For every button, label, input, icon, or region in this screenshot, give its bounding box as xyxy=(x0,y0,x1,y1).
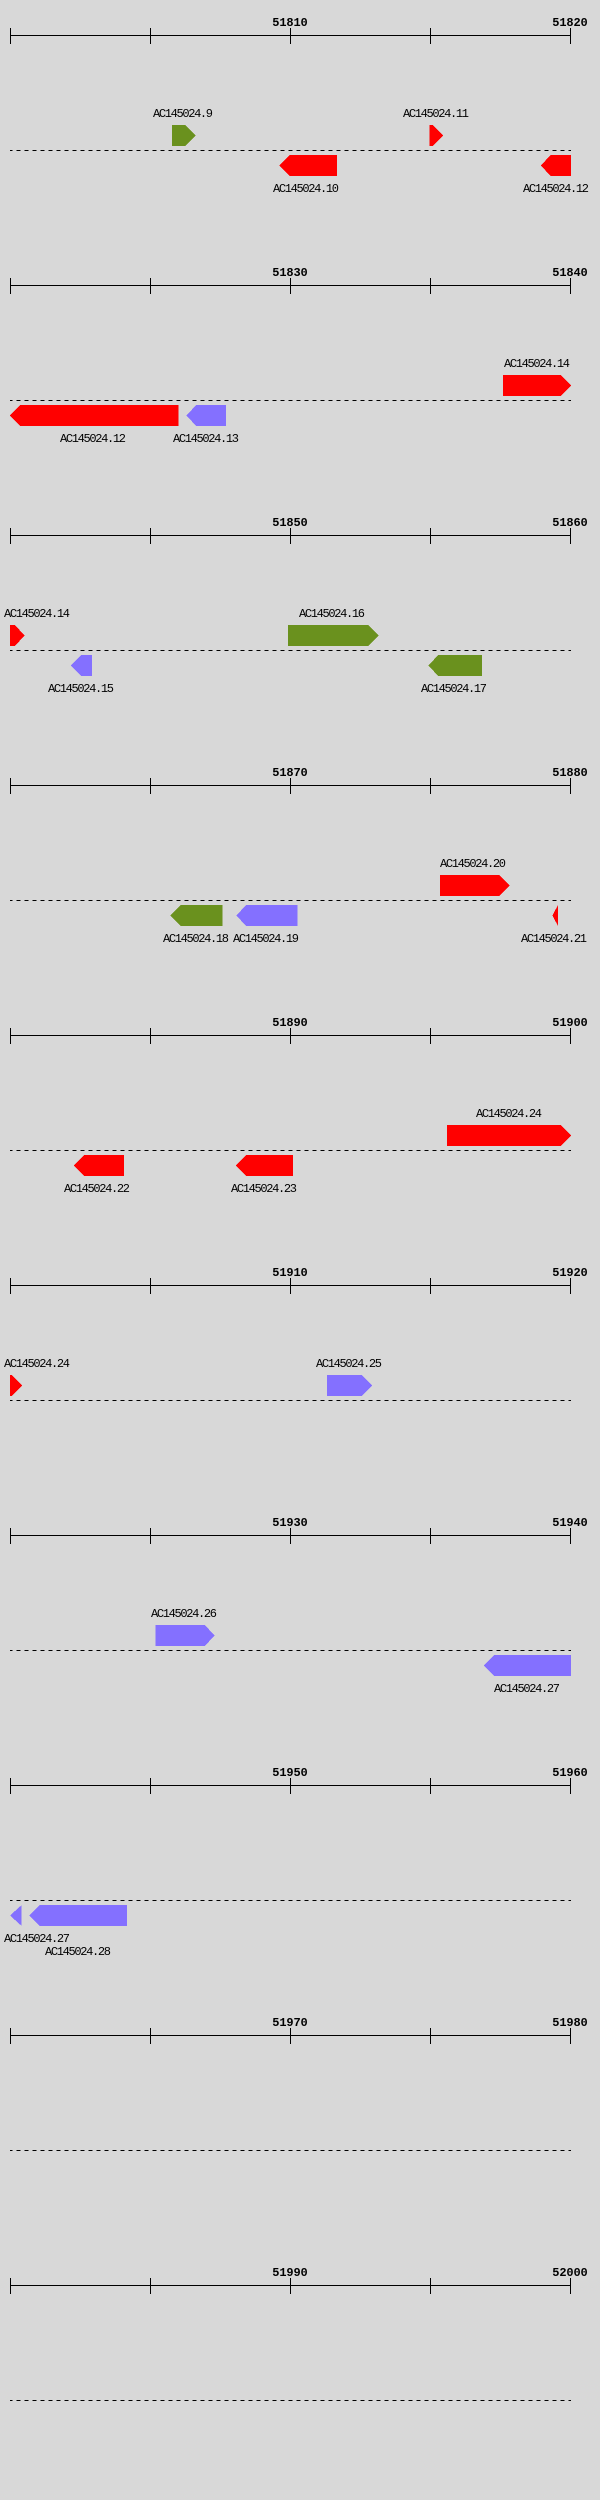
feature AC145024.24 (panel 5 part) xyxy=(447,1125,571,1146)
feature AC145024.18 xyxy=(171,905,223,926)
feature AC145024.24 (panel 6 part) xyxy=(10,1375,22,1396)
svg-text:AC145024.24: AC145024.24 xyxy=(4,1357,70,1371)
svg-text:51920: 51920 xyxy=(552,1266,588,1280)
panel 5 ruler line xyxy=(10,1028,571,1044)
panel 5 dashed midline xyxy=(10,1150,571,1152)
feature AC145024.12 (panel 1 part) xyxy=(541,155,571,176)
svg-text:AC145024.10: AC145024.10 xyxy=(273,182,339,196)
svg-text:51880: 51880 xyxy=(552,766,588,780)
feature AC145024.14 (panel 3 part) xyxy=(10,625,25,646)
svg-text:51860: 51860 xyxy=(552,516,588,530)
panel 8 dashed midline xyxy=(10,1900,571,1902)
svg-text:51960: 51960 xyxy=(552,1766,588,1780)
svg-text:AC145024.19: AC145024.19 xyxy=(233,932,299,946)
svg-text:AC145024.11: AC145024.11 xyxy=(403,107,469,121)
panel 7 ruler line xyxy=(10,1528,571,1544)
feature AC145024.15 xyxy=(71,655,92,676)
svg-text:AC145024.27: AC145024.27 xyxy=(494,1682,560,1696)
feature AC145024.21 xyxy=(552,905,558,926)
panel 9 ruler line xyxy=(10,2028,571,2044)
panel 6 dashed midline xyxy=(10,1400,571,1402)
panel 10 dashed midline xyxy=(10,2400,571,2402)
svg-text:51980: 51980 xyxy=(552,2016,588,2030)
svg-text:51910: 51910 xyxy=(272,1266,308,1280)
svg-text:AC145024.20: AC145024.20 xyxy=(440,857,506,871)
svg-text:AC145024.26: AC145024.26 xyxy=(151,1607,217,1621)
svg-text:51850: 51850 xyxy=(272,516,308,530)
feature AC145024.10 xyxy=(279,155,337,176)
svg-text:AC145024.22: AC145024.22 xyxy=(64,1182,130,1196)
svg-text:AC145024.12: AC145024.12 xyxy=(523,182,589,196)
svg-text:AC145024.15: AC145024.15 xyxy=(48,682,114,696)
svg-text:51890: 51890 xyxy=(272,1016,308,1030)
panel 3 ruler line xyxy=(10,528,571,544)
svg-text:AC145024.12: AC145024.12 xyxy=(60,432,126,446)
panel 1 dashed midline xyxy=(10,150,571,152)
svg-text:AC145024.28: AC145024.28 xyxy=(45,1945,111,1959)
panel 7 dashed midline xyxy=(10,1650,571,1652)
svg-text:AC145024.13: AC145024.13 xyxy=(173,432,239,446)
feature AC145024.23 xyxy=(236,1155,293,1176)
panel 6 ruler line xyxy=(10,1278,571,1294)
svg-text:AC145024.18: AC145024.18 xyxy=(163,932,229,946)
svg-text:AC145024.21: AC145024.21 xyxy=(521,932,587,946)
feature AC145024.25 xyxy=(327,1375,372,1396)
svg-text:AC145024.14: AC145024.14 xyxy=(504,357,570,371)
panel 1 ruler line xyxy=(10,28,571,44)
feature AC145024.26 xyxy=(156,1625,215,1646)
feature AC145024.17 xyxy=(428,655,482,676)
svg-text:51830: 51830 xyxy=(272,266,308,280)
svg-text:51950: 51950 xyxy=(272,1766,308,1780)
svg-text:AC145024.27: AC145024.27 xyxy=(4,1932,70,1946)
feature AC145024.20 xyxy=(440,875,510,896)
svg-text:AC145024.17: AC145024.17 xyxy=(421,682,487,696)
feature AC145024.12 (panel 2 part) xyxy=(10,405,179,426)
panel 2 dashed midline xyxy=(10,400,571,402)
panel 9 dashed midline xyxy=(10,2150,571,2152)
feature AC145024.28 xyxy=(30,1905,128,1926)
feature AC145024.14 (panel 2 part) xyxy=(503,375,571,396)
svg-text:51940: 51940 xyxy=(552,1516,588,1530)
panel 3 dashed midline xyxy=(10,650,571,652)
svg-text:51840: 51840 xyxy=(552,266,588,280)
svg-text:AC145024.14: AC145024.14 xyxy=(4,607,70,621)
svg-text:AC145024.16: AC145024.16 xyxy=(299,607,365,621)
svg-text:51810: 51810 xyxy=(272,16,308,30)
panel 8 ruler line xyxy=(10,1778,571,1794)
svg-text:AC145024.24: AC145024.24 xyxy=(476,1107,542,1121)
svg-text:51820: 51820 xyxy=(552,16,588,30)
panel 2 ruler line xyxy=(10,278,571,294)
svg-text:AC145024.23: AC145024.23 xyxy=(231,1182,297,1196)
panel 10 ruler line xyxy=(10,2278,571,2294)
svg-text:51990: 51990 xyxy=(272,2266,308,2280)
panel 4 dashed midline xyxy=(10,900,571,902)
svg-text:AC145024.25: AC145024.25 xyxy=(316,1357,382,1371)
svg-text:AC145024.9: AC145024.9 xyxy=(153,107,213,121)
feature AC145024.27 (panel 8 part) xyxy=(10,1905,22,1926)
feature AC145024.16 xyxy=(288,625,379,646)
feature AC145024.13 xyxy=(186,405,226,426)
svg-text:51870: 51870 xyxy=(272,766,308,780)
panel 4 ruler line xyxy=(10,778,571,794)
svg-text:51900: 51900 xyxy=(552,1016,588,1030)
svg-text:52000: 52000 xyxy=(552,2266,588,2280)
feature AC145024.19 xyxy=(236,905,297,926)
feature AC145024.27 (panel 7 part) xyxy=(484,1655,571,1676)
feature AC145024.22 xyxy=(74,1155,124,1176)
svg-text:51970: 51970 xyxy=(272,2016,308,2030)
feature AC145024.9 xyxy=(172,125,196,146)
feature AC145024.11 xyxy=(429,125,443,146)
svg-text:51930: 51930 xyxy=(272,1516,308,1530)
